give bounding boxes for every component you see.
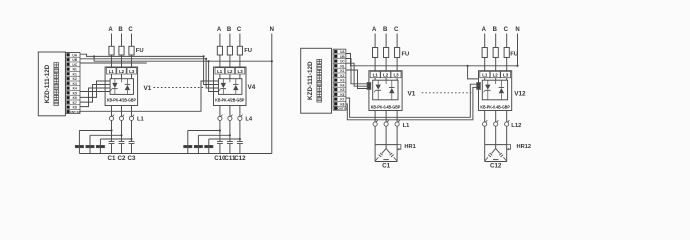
svg-text:K2: K2 <box>73 77 77 81</box>
svg-text:C: C <box>504 27 509 33</box>
svg-text:C12: C12 <box>234 155 246 162</box>
svg-text:K1: K1 <box>73 72 77 76</box>
svg-text:FU: FU <box>136 48 144 54</box>
svg-text:K5: K5 <box>73 91 77 95</box>
svg-text:C1: C1 <box>108 155 116 162</box>
svg-text:KZD-111-12D: KZD-111-12D <box>44 64 51 103</box>
svg-text:HR1: HR1 <box>404 144 415 150</box>
svg-text:FU: FU <box>244 48 252 54</box>
svg-text:L3: L3 <box>129 69 135 74</box>
svg-text:C3: C3 <box>128 155 136 162</box>
svg-text:UB: UB <box>72 58 77 62</box>
svg-text:L3: L3 <box>503 73 509 78</box>
svg-text:UC: UC <box>72 63 77 67</box>
svg-text:L4: L4 <box>245 116 253 122</box>
svg-text:C: C <box>128 27 133 33</box>
svg-text:N1: N1 <box>340 64 344 68</box>
svg-text:L3: L3 <box>393 73 399 78</box>
svg-text:KB-PK-0.4B-GBP: KB-PK-0.4B-GBP <box>371 105 401 110</box>
svg-text:C: C <box>237 27 242 33</box>
svg-text:B: B <box>118 27 123 33</box>
svg-text:C: C <box>394 27 399 33</box>
svg-text:V4: V4 <box>248 84 256 91</box>
svg-text:KZD-111-12D: KZD-111-12D <box>307 61 314 100</box>
svg-text:CNT IN: CNT IN <box>70 110 80 114</box>
svg-text:A: A <box>108 27 113 33</box>
svg-text:V1: V1 <box>408 91 416 98</box>
svg-text:K3: K3 <box>73 82 77 86</box>
svg-text:L2: L2 <box>227 69 233 74</box>
svg-text:L1: L1 <box>373 73 379 78</box>
svg-text:L1: L1 <box>482 73 488 78</box>
svg-text:V1: V1 <box>144 85 152 92</box>
svg-text:N: N <box>515 27 519 33</box>
svg-text:KB-PK-4/2B-GBP: KB-PK-4/2B-GBP <box>107 98 136 103</box>
svg-text:K7: K7 <box>73 101 77 105</box>
svg-text:C1: C1 <box>382 162 390 169</box>
svg-text:L12: L12 <box>511 123 522 129</box>
svg-text:L2: L2 <box>383 73 389 78</box>
svg-text:UC: UC <box>340 60 345 64</box>
svg-text:UA: UA <box>72 53 77 57</box>
svg-text:V12: V12 <box>514 91 526 98</box>
svg-text:UA: UA <box>340 50 345 54</box>
svg-text:FU: FU <box>402 52 410 58</box>
svg-text:L3: L3 <box>238 69 244 74</box>
svg-text:B: B <box>493 27 498 33</box>
svg-text:A: A <box>217 27 222 33</box>
svg-text:K4: K4 <box>340 83 344 87</box>
svg-text:KB-PK-4/2B-GBP: KB-PK-4/2B-GBP <box>215 98 244 103</box>
svg-text:N1: N1 <box>73 68 77 72</box>
svg-text:N: N <box>270 27 274 33</box>
svg-text:K4: K4 <box>73 87 77 91</box>
svg-text:K2: K2 <box>340 74 344 78</box>
svg-text:L1: L1 <box>403 123 410 129</box>
svg-text:B: B <box>227 27 232 33</box>
svg-text:L2: L2 <box>119 69 125 74</box>
svg-text:C12: C12 <box>490 162 502 169</box>
svg-text:K3: K3 <box>340 79 344 83</box>
svg-text:K7: K7 <box>340 98 344 102</box>
svg-text:C2: C2 <box>118 155 126 162</box>
svg-text:FU: FU <box>510 52 518 58</box>
svg-text:CNT IN: CNT IN <box>337 107 347 111</box>
svg-text:K6: K6 <box>340 93 344 97</box>
svg-text:L1: L1 <box>217 69 223 74</box>
svg-text:K6: K6 <box>73 96 77 100</box>
svg-text:A: A <box>372 27 377 33</box>
svg-text:A: A <box>482 27 487 33</box>
svg-text:L2: L2 <box>493 73 499 78</box>
svg-text:L1: L1 <box>137 116 145 122</box>
svg-text:K5: K5 <box>340 88 344 92</box>
svg-text:UB: UB <box>340 55 345 59</box>
svg-text:B: B <box>383 27 388 33</box>
svg-text:L1: L1 <box>109 69 115 74</box>
svg-text:KB-PK-0.4B-GBP: KB-PK-0.4B-GBP <box>480 105 510 110</box>
svg-text:K1: K1 <box>340 69 344 73</box>
svg-text:HR12: HR12 <box>517 144 532 150</box>
